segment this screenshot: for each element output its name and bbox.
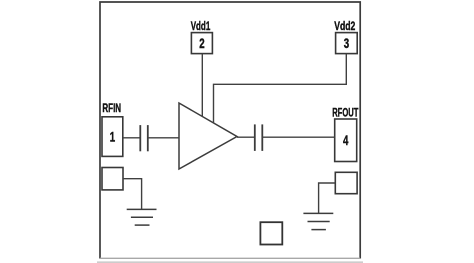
pad bottom-right [335, 172, 357, 193]
pin 4 box (RFOUT) [335, 119, 357, 162]
wire pin 3 to amplifier top [214, 54, 347, 123]
pad bottom-center [260, 222, 282, 244]
svg-text:Vdd1: Vdd1 [191, 19, 211, 33]
wire pin1 to C1 [123, 137, 141, 139]
svg-text:RFOUT: RFOUT [332, 105, 358, 119]
svg-text:Vdd2: Vdd2 [334, 19, 355, 33]
capacitor C2 [255, 124, 262, 150]
wire C2 to pin 4 [262, 136, 334, 138]
pad bottom-left [102, 168, 123, 190]
wire pin 2 to amplifier top [201, 54, 203, 117]
wire C1 to amplifier input [148, 137, 179, 139]
svg-text:RFIN: RFIN [102, 101, 121, 115]
pin 1 box (RFIN) [102, 117, 123, 157]
wire amplifier output to C2 [237, 136, 255, 138]
svg-text:1: 1 [110, 129, 116, 144]
pin 3 box (Vdd2) [336, 33, 358, 54]
amplifier U1 [179, 103, 237, 169]
wire right pad to ground [319, 183, 336, 213]
svg-text:4: 4 [343, 133, 349, 148]
svg-text:2: 2 [199, 36, 204, 51]
wire left pad to ground [123, 179, 142, 210]
ground right [303, 213, 333, 229]
chip outline [97, 2, 363, 262]
svg-text:3: 3 [344, 36, 349, 51]
pin 2 box (Vdd1) [191, 33, 212, 54]
capacitor C1 [140, 125, 148, 151]
ground left [127, 209, 157, 225]
